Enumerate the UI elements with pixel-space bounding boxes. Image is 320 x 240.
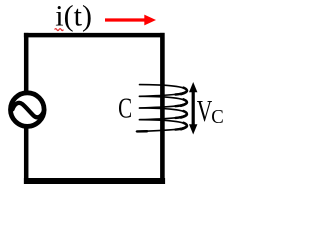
svg-text:C: C xyxy=(118,93,132,125)
wire right xyxy=(160,33,165,184)
AC source sine wave xyxy=(13,103,45,117)
svg-text:V: V xyxy=(197,94,213,128)
wire top xyxy=(24,33,165,38)
voltage arrow Vc xyxy=(189,82,197,135)
svg-text:i(t): i(t) xyxy=(55,0,92,33)
coil C xyxy=(137,85,187,132)
wire left xyxy=(24,33,29,184)
red current arrow xyxy=(105,15,156,26)
spellcheck squiggle under i xyxy=(55,29,64,31)
AC source V1 xyxy=(11,93,45,127)
wire bottom xyxy=(24,178,165,184)
svg-text:C: C xyxy=(211,106,224,128)
